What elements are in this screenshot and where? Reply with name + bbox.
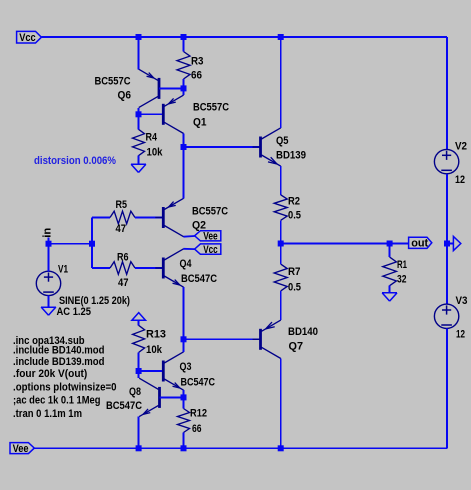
wire: [183, 134, 185, 148]
wire: [446, 174, 448, 244]
wire: [138, 371, 140, 378]
wire: [183, 37, 185, 52]
svg-text:R4: R4: [146, 132, 158, 144]
node junction: [181, 34, 187, 40]
svg-text:R3: R3: [191, 56, 204, 68]
wire: [138, 417, 140, 449]
resistor R13: [133, 325, 145, 352]
svg-text:Q3: Q3: [180, 361, 192, 373]
wire: [138, 156, 140, 165]
svg-text:10k: 10k: [146, 344, 163, 356]
wire: [159, 87, 184, 89]
svg-text:BD140: BD140: [288, 326, 318, 338]
flag Vee Q2: [195, 231, 221, 241]
flag Vcc Q4: [195, 244, 221, 254]
wire: [41, 36, 447, 38]
voltage source V1: [36, 271, 60, 295]
svg-text:R13: R13: [146, 329, 166, 341]
wire: [138, 353, 140, 372]
wire: [281, 243, 409, 245]
wire: [280, 359, 282, 449]
wire: [183, 397, 185, 408]
wire: [389, 244, 391, 258]
wire: [183, 339, 185, 352]
flag blank up: [132, 313, 146, 321]
svg-text:Vee: Vee: [203, 231, 218, 243]
wire: [280, 166, 282, 195]
wire: [446, 37, 448, 150]
svg-text:out: out: [411, 238, 428, 250]
wire: [184, 248, 195, 250]
svg-text:BC547C: BC547C: [181, 377, 216, 389]
svg-text:BC557C: BC557C: [95, 75, 131, 87]
wire: [280, 244, 282, 265]
wire: [280, 220, 282, 243]
svg-text:Q6: Q6: [118, 90, 132, 102]
wire: [92, 217, 110, 219]
svg-text:47: 47: [116, 223, 127, 235]
transistor Q5: [259, 137, 262, 158]
svg-text:.include BD139.mod: .include BD139.mod: [13, 356, 105, 368]
wire: [446, 244, 448, 305]
wire: [280, 37, 282, 128]
node junction: [181, 144, 187, 150]
svg-text:distorsion 0.006%: distorsion 0.006%: [34, 155, 116, 167]
flag blank right: [450, 243, 454, 245]
wire: [183, 88, 185, 95]
svg-text:BC547C: BC547C: [106, 400, 142, 412]
svg-text:R2: R2: [288, 196, 300, 208]
svg-text:66: 66: [192, 423, 202, 435]
svg-text:R7: R7: [288, 266, 301, 278]
svg-text:R1: R1: [397, 259, 407, 271]
svg-text:47: 47: [118, 277, 129, 289]
svg-text:Q4: Q4: [180, 258, 193, 270]
svg-text:in: in: [42, 228, 54, 238]
wire: [48, 296, 50, 307]
svg-text:.tran 0 1.1m 1m: .tran 0 1.1m 1m: [13, 408, 82, 420]
svg-text:Q2: Q2: [192, 220, 206, 232]
wire: [184, 235, 195, 238]
node junction: [181, 394, 187, 400]
transistor Q1: [162, 104, 165, 125]
node junction: [387, 241, 393, 247]
node junction: [444, 241, 450, 247]
svg-text:;ac dec 1k 0.1 1Meg: ;ac dec 1k 0.1 1Meg: [13, 394, 101, 406]
wire: [91, 218, 93, 269]
svg-text:AC 1.25: AC 1.25: [57, 306, 92, 318]
svg-text:V1: V1: [58, 264, 68, 276]
resistor R5: [110, 211, 135, 224]
node junction: [89, 241, 95, 247]
svg-text:0.5: 0.5: [288, 210, 301, 222]
wire: [183, 147, 185, 198]
wire: [389, 286, 391, 293]
svg-text:12: 12: [455, 174, 465, 186]
svg-text:BC557C: BC557C: [192, 206, 228, 218]
wire: [184, 146, 260, 148]
node junction: [136, 368, 142, 374]
node junction: [181, 336, 187, 342]
svg-text:Vee: Vee: [13, 443, 29, 455]
Vee power flag: [10, 443, 34, 454]
node junction: [136, 111, 142, 117]
wire: [160, 396, 184, 398]
resistor R3: [177, 52, 190, 80]
svg-text:BD139: BD139: [276, 150, 306, 162]
svg-text:.four 20k V(out): .four 20k V(out): [13, 368, 88, 380]
transistor Q2: [162, 207, 165, 228]
svg-text:V3: V3: [456, 295, 468, 307]
wire: [139, 113, 163, 115]
node junction: [136, 445, 142, 451]
node in stub: [48, 238, 50, 244]
svg-text:.options plotwinsize=0: .options plotwinsize=0: [13, 382, 117, 394]
resistor R1: [383, 257, 397, 286]
svg-text:R5: R5: [116, 199, 128, 211]
svg-text:BC557C: BC557C: [193, 102, 229, 114]
resistor R6: [110, 262, 135, 275]
resistor R2: [274, 195, 287, 221]
svg-text:Q1: Q1: [193, 117, 207, 129]
wire: [135, 217, 162, 219]
transistor Q3: [162, 361, 165, 382]
node junction: [181, 85, 187, 91]
wire: [183, 287, 185, 339]
svg-text:Vcc: Vcc: [19, 32, 36, 44]
wire: [48, 244, 50, 272]
flag out: [409, 237, 432, 248]
node junction: [136, 34, 142, 40]
resistor R12: [178, 409, 190, 433]
wire: [49, 243, 93, 245]
svg-text:0.5: 0.5: [288, 282, 301, 294]
resistor R7: [274, 264, 287, 291]
wire: [280, 291, 282, 320]
voltage source V3: [434, 304, 458, 328]
voltage source V2: [434, 149, 458, 173]
wire: [183, 390, 185, 397]
node junction: [278, 34, 284, 40]
Vcc power flag: [17, 31, 42, 43]
svg-text:BC547C: BC547C: [181, 273, 217, 285]
svg-text:32: 32: [397, 274, 407, 286]
wire: [183, 433, 185, 449]
wire: [138, 108, 140, 114]
wire: [34, 447, 447, 449]
svg-text:12: 12: [456, 329, 465, 341]
wire: [138, 37, 140, 70]
svg-text:Q5: Q5: [276, 135, 289, 147]
wire: [183, 79, 185, 88]
node junction: [46, 241, 52, 247]
svg-text:Vcc: Vcc: [203, 244, 218, 256]
svg-text:10k: 10k: [147, 147, 164, 159]
wire: [446, 329, 448, 449]
ground: [131, 163, 146, 165]
node junction: [278, 241, 284, 247]
svg-text:Q7: Q7: [289, 341, 304, 353]
wire: [138, 114, 140, 129]
ground: [41, 306, 56, 308]
svg-text:R12: R12: [190, 408, 207, 420]
svg-text:R6: R6: [117, 252, 129, 264]
resistor R4: [133, 129, 145, 155]
transistor Q7: [259, 329, 262, 350]
transistor Q4: [162, 258, 165, 279]
wire: [184, 338, 260, 340]
svg-text:66: 66: [191, 70, 202, 82]
node junction: [278, 445, 284, 451]
wire: [135, 267, 162, 269]
svg-text:V2: V2: [455, 141, 467, 153]
wire: [139, 370, 163, 372]
wire: [92, 267, 110, 269]
transistor Q6: [158, 78, 161, 99]
svg-text:Q8: Q8: [129, 386, 141, 398]
ground: [382, 292, 397, 294]
transistor Q8: [158, 387, 161, 408]
svg-text:.include BD140.mod: .include BD140.mod: [13, 345, 105, 357]
node junction: [181, 445, 187, 451]
